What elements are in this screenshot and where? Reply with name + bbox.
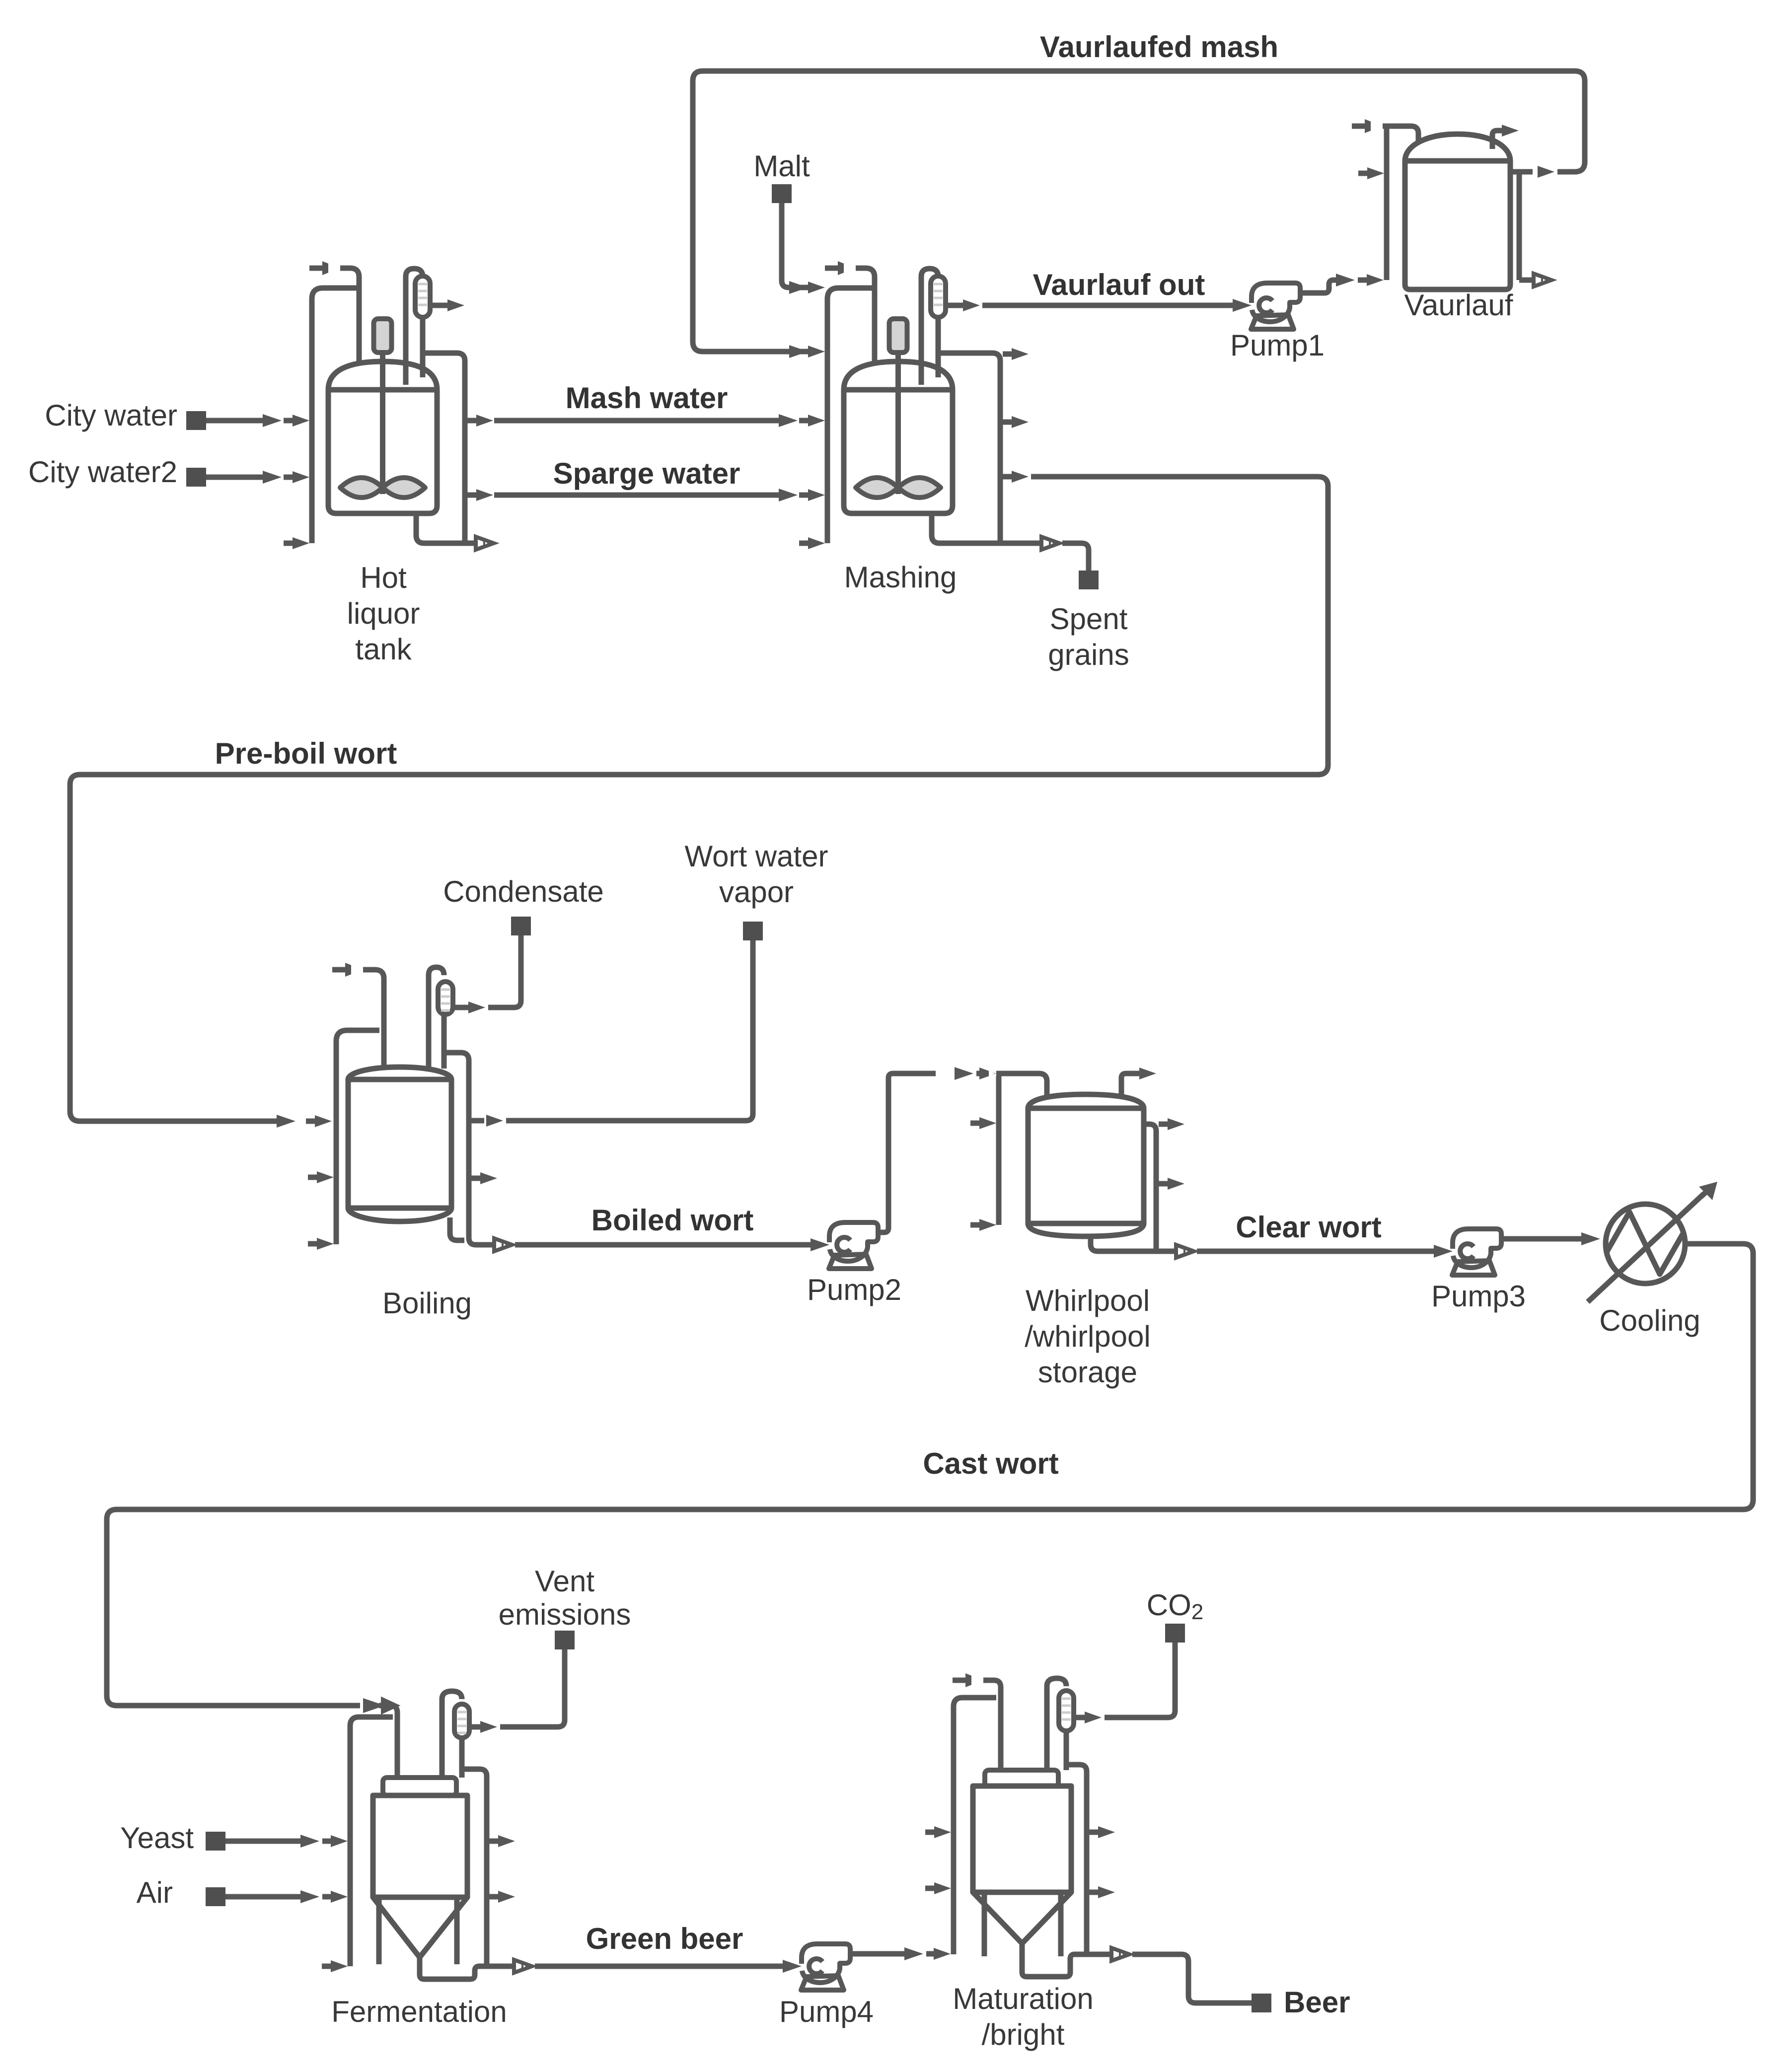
stream Yeast [225, 1835, 319, 1848]
svg-text:Maturation: Maturation [953, 1982, 1093, 2015]
label Pump3 [1431, 1280, 1526, 1313]
Fermentation level gauge capsule [454, 1704, 469, 1738]
Hot liquor tank bottom-left port arrow [284, 537, 309, 549]
Mashing right port 1 (unused) [1003, 348, 1029, 360]
svg-text:liquor: liquor [347, 597, 420, 630]
Maturation cone [973, 1892, 1071, 1943]
svg-text:Spent: Spent [1050, 602, 1128, 636]
svg-text:Cast wort: Cast wort [923, 1447, 1058, 1480]
svg-text:Mash water: Mash water [566, 381, 728, 415]
Mashing right port 2 (unused) [1003, 416, 1029, 428]
stream Beer [1132, 1954, 1271, 2012]
Vaurlauf top inlet pipe [1352, 119, 1418, 280]
svg-text:Cooling: Cooling [1599, 1304, 1700, 1337]
stream City water [206, 414, 282, 427]
stream Sparge water [494, 489, 798, 501]
Boiling wort vapor outlet arrow [471, 1115, 503, 1127]
Fermentation Yeast inlet port arrow [322, 1835, 348, 1847]
stream Clear wort [1197, 1245, 1453, 1258]
svg-text:Yeast: Yeast [120, 1821, 194, 1855]
Boiling top-left inlet pipe [332, 963, 384, 1072]
label Sparge water [553, 457, 740, 490]
svg-text:emissions: emissions [499, 1598, 631, 1631]
Hot liquor tank Sparge water outlet port [467, 489, 493, 501]
Maturation right port 2 (unused) [1089, 1886, 1115, 1898]
pump Pump4 outlet pipe [850, 1947, 923, 1960]
svg-text:Pump1: Pump1 [1230, 329, 1325, 362]
heat exchanger Cooling [1588, 1182, 1717, 1302]
Vaurlauf top-right outlet [1492, 125, 1519, 149]
Mashing right jacket pipe [940, 353, 1000, 543]
pump Pump1 outlet pipe [1300, 274, 1355, 293]
svg-text:Vent: Vent [535, 1565, 594, 1598]
label Pump4 [779, 1995, 874, 2028]
Whirlpool bottom outlet pipe [1091, 1234, 1194, 1258]
Maturation riser tube [1047, 1678, 1066, 1770]
Vaurlauf bottom-right outlet [1519, 274, 1551, 286]
stream Green beer [535, 1960, 802, 1973]
Fermentation lid [383, 1778, 456, 1795]
label Mashing [844, 561, 957, 594]
Hot liquor tank left jacket pipe [312, 288, 359, 543]
Boiling left port (unused) [308, 1171, 334, 1183]
Boiling left jacket pipe [336, 1030, 379, 1244]
stream Wort water vapor [506, 922, 763, 1121]
label Pump1 [1230, 329, 1325, 362]
Whirlpool right port 1 (unused) [1159, 1118, 1184, 1130]
Hot liquor tank top-left inlet pipe [309, 261, 359, 397]
svg-text:City water: City water [45, 399, 177, 432]
Vaurlauf right jacket pipe [1517, 172, 1522, 280]
stream Pre-boil wort [70, 477, 1328, 1128]
svg-text:Sparge water: Sparge water [553, 457, 740, 490]
Boiling right port (unused) [471, 1172, 497, 1184]
source Yeast square [206, 1832, 225, 1851]
label Pump2 [807, 1273, 901, 1306]
svg-text:Mashing: Mashing [844, 561, 957, 594]
source City water square [186, 411, 206, 430]
Fermentation inlet port arrow [383, 1700, 396, 1712]
Whirlpool top inlet port arrow [976, 1068, 996, 1079]
svg-text:grains: grains [1048, 638, 1129, 671]
source City water2 square [186, 468, 206, 487]
Hot liquor tank level gauge capsule [415, 276, 430, 317]
pump Pump1 [1251, 283, 1300, 329]
Mashing level gauge capsule [931, 276, 946, 317]
stream Vaurlaufed mash (recycle) [693, 71, 1585, 358]
Maturation bottom outlet pipe [1022, 1943, 1129, 1977]
stream City water2 [206, 471, 282, 484]
Maturation CO2 outlet arrow [1074, 1712, 1102, 1723]
label Condensate [443, 875, 604, 908]
label Hot liquor tank [347, 561, 420, 666]
Fermentation right port 1 (unused) [489, 1835, 515, 1847]
Mashing Malt inlet port [799, 282, 825, 293]
Mashing riser tube [921, 269, 938, 385]
Hot liquor tank Mash water outlet port [467, 415, 493, 427]
Hot liquor tank City water inlet port [284, 415, 309, 427]
Whirlpool right port 2 (unused) [1159, 1178, 1184, 1190]
label City water [45, 399, 177, 432]
svg-text:Fermentation: Fermentation [331, 1995, 507, 2028]
pump Pump2 [829, 1222, 878, 1269]
label Boiled wort [591, 1204, 754, 1237]
Fermentation vessel body [373, 1795, 467, 1897]
svg-text:Pump2: Pump2 [807, 1273, 901, 1306]
Whirlpool top inlet pipe [996, 1073, 1047, 1225]
Fermentation left jacket pipe [350, 1717, 393, 1966]
Mashing top-left inlet pipe [825, 261, 875, 397]
label Whirlpool [1025, 1284, 1150, 1389]
Whirlpool mid-left port arrow [970, 1117, 996, 1129]
Mashing capsule outlet arrow (Vaurlauf out) [946, 299, 980, 311]
label Vaurlauf [1404, 288, 1513, 322]
svg-text:Malt: Malt [753, 149, 810, 183]
svg-text:Vaurlauf: Vaurlauf [1404, 288, 1513, 322]
Fermentation bottom-left port arrow [322, 1960, 348, 1972]
svg-text:Vaurlauf out: Vaurlauf out [1033, 268, 1205, 301]
svg-text:Vaurlaufed mash: Vaurlaufed mash [1040, 30, 1278, 64]
label Pre-boil wort [215, 737, 397, 770]
Boiling riser tube [429, 967, 444, 1072]
Mashing bottom outlet pipe [932, 511, 1059, 550]
label Green beer [586, 1922, 743, 1955]
label Mash water [566, 381, 728, 415]
svg-text:/bright: /bright [982, 2018, 1065, 2051]
label Fermentation [331, 1995, 507, 2028]
Maturation lid [985, 1770, 1058, 1788]
Boiling Pre-boil inlet port arrow [306, 1115, 332, 1127]
source Malt square [772, 184, 792, 203]
stream CO2 [1105, 1624, 1185, 1717]
Maturation left jacket pipe [954, 1698, 996, 1954]
label Vaurlaufed mash [1040, 30, 1278, 64]
stream Boiled wort [515, 1238, 829, 1251]
label Cast wort [923, 1447, 1058, 1480]
Maturation level gauge capsule [1059, 1691, 1074, 1731]
svg-text:/whirlpool: /whirlpool [1025, 1320, 1150, 1353]
pump Pump3 [1452, 1229, 1501, 1275]
Mashing left jacket pipe [827, 288, 875, 543]
Maturation vessel body [973, 1786, 1071, 1892]
pump Pump4 [801, 1944, 850, 1990]
Hot liquor tank vessel body [328, 361, 437, 513]
Hot liquor tank City water2 inlet port [284, 471, 309, 483]
Hot liquor tank capsule outlet arrow [430, 299, 464, 311]
svg-text:Whirlpool: Whirlpool [1026, 1284, 1150, 1317]
stream Condensate [488, 917, 531, 1007]
Boiling condensate outlet arrow [453, 1001, 485, 1013]
svg-text:Clear wort: Clear wort [1236, 1211, 1381, 1244]
Mashing recycle inlet port [799, 346, 825, 357]
label Vent emissions [499, 1565, 631, 1631]
Boiling bottom-left port arrow [308, 1238, 334, 1250]
Boiling vessel body [348, 1067, 451, 1221]
svg-text:City water2: City water2 [28, 455, 177, 489]
Maturation left port 1 (unused) [925, 1826, 951, 1838]
label Air [137, 1876, 173, 1909]
Fermentation right jacket pipe [462, 1769, 487, 1966]
pump Pump2 outlet pipe [878, 1067, 973, 1232]
label Vaurlauf out [1033, 268, 1205, 301]
stream Vent emissions [500, 1631, 575, 1727]
label Wort water vapor [685, 840, 828, 909]
Fermentation riser tube [442, 1691, 462, 1778]
Whirlpool vessel body [1028, 1094, 1144, 1236]
label Boiling [382, 1286, 472, 1320]
svg-text:Boiling: Boiling [382, 1286, 472, 1320]
Fermentation bottom outlet pipe [420, 1957, 532, 1979]
Hot liquor tank agitator shaft [380, 350, 385, 494]
source Air square [206, 1887, 225, 1906]
Fermentation vent outlet arrow [469, 1721, 497, 1733]
label Malt [753, 149, 810, 183]
label CO2 [1147, 1588, 1203, 1624]
Boiling bottom outlet pipe [450, 1217, 512, 1251]
stream Mash water [494, 414, 798, 427]
stream Vaurlauf out [982, 299, 1252, 312]
svg-text:Beer: Beer [1284, 1986, 1350, 2019]
Maturation right jacket pipe [1066, 1765, 1087, 1954]
Boiling right jacket pipe [446, 1053, 469, 1221]
stream Spent grains [1062, 543, 1099, 589]
Mashing Pre-boil wort outlet port [1003, 471, 1029, 483]
Maturation right port 1 (unused) [1089, 1826, 1115, 1838]
svg-text:Pre-boil wort: Pre-boil wort [215, 737, 397, 770]
svg-text:Condensate: Condensate [443, 875, 604, 908]
Maturation pump inlet port arrow [926, 1948, 951, 1960]
svg-text:Pump3: Pump3 [1431, 1280, 1526, 1313]
Hot liquor tank agitator motor [374, 319, 392, 353]
Mashing bottom-left port arrow [799, 537, 825, 549]
Maturation left port 2 (unused) [925, 1882, 951, 1894]
label Cooling [1599, 1304, 1700, 1337]
svg-text:Boiled wort: Boiled wort [591, 1204, 754, 1237]
stream Malt [782, 203, 808, 294]
Mashing Mash water inlet port [799, 415, 825, 427]
stream Air [225, 1890, 319, 1903]
svg-text:Green beer: Green beer [586, 1922, 743, 1955]
Hot liquor tank impeller [340, 478, 425, 498]
Mashing Sparge water inlet port [799, 489, 825, 501]
Mashing agitator motor [889, 319, 907, 353]
Mashing agitator shaft [895, 350, 901, 494]
Hot liquor tank riser tube [406, 269, 423, 385]
Boiling level gauge capsule [438, 982, 453, 1014]
label Spent grains [1048, 602, 1129, 671]
Fermentation Air inlet port arrow [322, 1891, 348, 1903]
Fermentation legs [379, 1897, 457, 1964]
Vaurlauf vessel body [1405, 134, 1510, 289]
Fermentation right port 2 (unused) [489, 1891, 515, 1903]
Whirlpool bottom-left port arrow [970, 1219, 996, 1231]
Mashing impeller [856, 478, 941, 498]
label Beer [1284, 1986, 1350, 2019]
svg-text:vapor: vapor [719, 875, 794, 909]
Whirlpool right jacket pipe [1144, 1124, 1156, 1251]
Vaurlauf right outlet pipe [1510, 169, 1533, 175]
label City water2 [28, 455, 177, 489]
svg-text:Hot: Hot [360, 561, 407, 594]
svg-text:storage: storage [1038, 1356, 1137, 1389]
pump Pump3 outlet pipe [1501, 1232, 1600, 1245]
Mashing vessel body [844, 361, 953, 513]
Maturation legs [984, 1892, 1061, 1956]
stream Cast wort [107, 1244, 1753, 1713]
svg-text:Air: Air [137, 1876, 173, 1909]
Hot liquor tank bottom outlet pipe [416, 511, 494, 550]
Vaurlauf mid-left port arrow [1358, 167, 1384, 179]
Vaurlauf pump inlet port arrow [1358, 274, 1384, 286]
Hot liquor tank right jacket pipe [424, 353, 465, 543]
svg-text:Wort water: Wort water [685, 840, 828, 873]
label Yeast [120, 1821, 194, 1855]
Whirlpool top-right outlet [1121, 1068, 1156, 1098]
label Clear wort [1236, 1211, 1381, 1244]
svg-text:Pump4: Pump4 [779, 1995, 874, 2028]
Fermentation top inlet pipe [379, 1706, 397, 1780]
Fermentation cone [373, 1897, 467, 1957]
Maturation top inlet pipe [953, 1673, 1001, 1770]
label Maturation [953, 1982, 1093, 2051]
svg-text:tank: tank [355, 633, 412, 666]
